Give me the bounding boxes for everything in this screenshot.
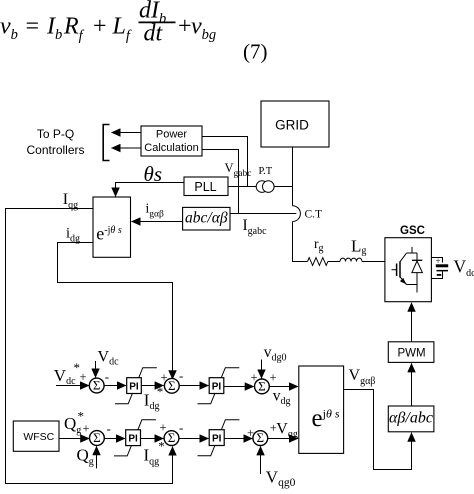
summing junction sum1d	[89, 378, 104, 393]
wire i_dg feedback	[58, 243, 173, 380]
wire PI2q to sum3q	[224, 438, 252, 440]
summing junction sum3q	[253, 430, 268, 445]
svg-text:+: +	[270, 371, 277, 385]
wire r_g to L_g	[328, 261, 340, 263]
PI1q box	[126, 430, 141, 446]
svg-text:C.T: C.T	[305, 209, 323, 221]
svg-text:Σ: Σ	[168, 430, 176, 445]
wire ab/abc to PWM	[411, 363, 413, 406]
wire PI1d to sum2d	[141, 385, 163, 387]
IGBT Q1 inside GSC	[392, 247, 418, 293]
svg-text:Σ: Σ	[93, 430, 101, 445]
wire PI1q to sum2q	[141, 438, 164, 440]
limiter marks PI2d	[198, 368, 240, 404]
fraction bar	[139, 21, 176, 23]
WFSC box	[13, 421, 59, 451]
capacitor thick plate	[436, 264, 448, 267]
wire GSC to DC link top	[431, 258, 442, 263]
svg-text:Σ: Σ	[257, 430, 265, 445]
limiter marks PI2q	[198, 420, 240, 456]
PLL box	[184, 177, 228, 196]
wire grid vertical upper	[292, 147, 294, 206]
PT transformer circles	[256, 181, 274, 193]
PWM box	[388, 342, 434, 363]
svg-text:Σ: Σ	[258, 378, 266, 393]
limiter marks PI1d	[115, 368, 157, 404]
svg-text:+: +	[80, 370, 87, 384]
wire PWM to GSC	[411, 303, 413, 342]
wire sum1d to PI1d	[104, 385, 126, 387]
svg-text:*: *	[158, 439, 165, 454]
wire I_qg feedback (around left and bottom)	[6, 209, 173, 484]
label To P-Q Controllers	[26, 127, 84, 157]
e^jths box U2	[299, 366, 344, 453]
wire abc/ab to e-jths	[132, 221, 183, 223]
summing junction sum2d	[164, 378, 179, 393]
GSC converter box	[385, 238, 432, 302]
svg-text:Σ: Σ	[168, 378, 176, 393]
svg-text:-: -	[107, 421, 111, 436]
Power Calculation box	[141, 126, 202, 156]
svg-text:PI: PI	[129, 382, 139, 393]
wire arrow PowerCalc to bracket 2	[112, 147, 142, 149]
wire sum1q to PI1q	[104, 438, 125, 440]
alphabeta/abc box	[388, 406, 434, 432]
wire v_dg0 into sum3d	[261, 360, 263, 379]
e^-jths box U1	[93, 197, 131, 257]
svg-text:P.T: P.T	[259, 166, 273, 177]
wire V_dc down into sum1d	[95, 361, 97, 378]
wire PowerCalc lower input	[202, 150, 239, 214]
equation (7): v_b = I_b R_f + L_f dI_b/dt + v_bg	[0, 0, 216, 47]
GRID box	[261, 101, 329, 147]
wire sum3d to e^jths	[269, 386, 298, 388]
summing junction sum1q	[90, 430, 105, 445]
svg-text:PLL: PLL	[194, 180, 216, 194]
svg-text:-: -	[179, 368, 183, 383]
svg-text:PI: PI	[212, 434, 222, 445]
svg-text:WFSC: WFSC	[23, 431, 54, 443]
capacitor minus sign	[437, 274, 442, 276]
PI2d box	[209, 378, 224, 394]
wire L_g to GSC	[362, 261, 385, 263]
wire V_dc* to sum1d	[56, 385, 89, 387]
svg-text:To P-Q: To P-Q	[37, 127, 74, 141]
summing junction sum3d	[255, 378, 270, 393]
wire sum3q to e^jths	[268, 438, 298, 440]
diode D1 inside GSC	[412, 253, 423, 285]
capacitor thin plate	[437, 270, 449, 272]
wire CT measurement line	[230, 213, 296, 215]
PI2q box	[209, 430, 224, 446]
svg-text:PI: PI	[128, 434, 138, 445]
wire V_gab from e^jths to ab/abc	[344, 390, 412, 470]
svg-text:(7): (7)	[243, 40, 268, 64]
svg-text:=: =	[24, 14, 40, 40]
svg-text:+: +	[83, 422, 90, 436]
svg-text:PWM: PWM	[397, 348, 425, 360]
svg-text:Calculation: Calculation	[144, 142, 198, 154]
CT bump	[293, 206, 301, 222]
bracket	[103, 125, 109, 161]
wire sum2q to PI2q	[179, 438, 209, 440]
svg-text:-: -	[179, 420, 183, 435]
wire sum2d to PI2d	[179, 385, 208, 387]
summing junction sum2q	[164, 430, 179, 445]
svg-text:Σ: Σ	[93, 378, 101, 393]
svg-text:PI: PI	[212, 382, 222, 393]
svg-text:+: +	[160, 421, 167, 435]
wire PT line	[228, 186, 293, 188]
svg-text:*: *	[157, 384, 164, 399]
limiter marks PI1q	[114, 420, 156, 456]
svg-text:αβ/abc: αβ/abc	[389, 410, 433, 427]
svg-text:Power: Power	[156, 129, 188, 141]
svg-text:-: -	[105, 369, 109, 384]
wire PI2d to sum3d	[224, 386, 254, 388]
wire WFSC to sum1q	[59, 438, 89, 440]
svg-text:+: +	[92, 14, 108, 40]
wire DC link bottom	[431, 271, 442, 278]
wire arrow PowerCalc to bracket 1	[112, 132, 142, 134]
svg-text:dt: dt	[144, 21, 164, 47]
svg-text:GSC: GSC	[400, 225, 425, 237]
wire PLL to e-jths (theta s)	[116, 183, 185, 197]
svg-text:GRID: GRID	[275, 118, 309, 133]
PI1d box	[127, 378, 142, 394]
inductor L_g	[340, 258, 362, 261]
svg-text:Controllers: Controllers	[26, 143, 84, 157]
wire PowerCalc upper input	[202, 137, 248, 187]
wire grid vertical lower to r_g	[293, 222, 308, 262]
wire Q_g into sum1q bottom	[96, 446, 98, 468]
resistor r_g	[308, 258, 328, 266]
abc/alphabeta box	[183, 207, 230, 230]
svg-text:abc/αβ: abc/αβ	[185, 210, 228, 227]
wire V_qg0 into sum3q bottom	[260, 446, 262, 474]
